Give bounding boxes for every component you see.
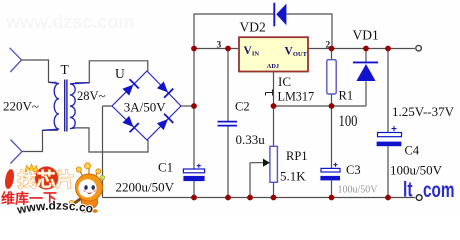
wire secondary bottom to bridge bottom corner — [76, 128, 148, 152]
svg-text:VD1: VD1 — [353, 28, 379, 43]
input terminal arrow bottom — [10, 140, 22, 164]
wire top bus with VD2 gap — [194, 14, 333, 49]
svg-text:1.25V--37V: 1.25V--37V — [392, 104, 455, 119]
node C1 bottom junction — [191, 195, 197, 201]
wire bottom bus — [103, 197, 416, 199]
wire node 2 IC VOUT to output terminal — [308, 48, 415, 50]
svg-text:2200u/50V: 2200u/50V — [116, 180, 175, 195]
RP1 wiper arrowhead — [263, 159, 270, 167]
svg-text:0.33u: 0.33u — [236, 132, 266, 147]
wire node 3 to IC VIN — [194, 48, 239, 50]
node ADJ junction — [271, 103, 277, 109]
node C4 top junction — [385, 46, 391, 52]
wire RP1 wiper — [250, 163, 264, 198]
transformer T primary coil — [43, 82, 60, 130]
svg-text:T: T — [61, 62, 70, 77]
transformer T secondary coil — [70, 83, 89, 129]
wire input top terminal to transformer primary top — [22, 60, 57, 82]
svg-text:www.dzsc.com: www.dzsc.com — [5, 12, 134, 32]
node VD1 top junction — [363, 46, 369, 52]
node C4 bottom junction — [385, 195, 391, 201]
capacitor C1 — [183, 164, 204, 181]
node C2 bottom junction — [225, 195, 231, 201]
svg-text:ADJ: ADJ — [267, 63, 279, 70]
wire C4 branch — [387, 49, 389, 198]
node R1 bottom junction — [329, 103, 335, 109]
svg-text:IC: IC — [278, 74, 291, 89]
svg-text:220V~: 220V~ — [3, 98, 39, 113]
svg-text:VD2: VD2 — [240, 19, 266, 34]
bridge diode top-right — [156, 80, 174, 98]
capacitor C2 — [218, 122, 238, 126]
bridge rectifier U diamond — [112, 71, 181, 140]
svg-text:3: 3 — [217, 41, 222, 51]
svg-text:lt: lt — [403, 178, 413, 201]
bridge diode bottom-left — [121, 115, 139, 133]
node bridge right junction — [191, 103, 197, 109]
bridge diode bottom-right — [156, 113, 174, 131]
output terminal minus — [416, 195, 422, 201]
output terminal plus — [416, 45, 422, 51]
svg-text:C2: C2 — [235, 100, 250, 114]
wire VD1 top — [365, 49, 367, 62]
diode VD2 — [274, 3, 286, 27]
node 3 junction — [191, 46, 197, 52]
svg-text:找芯片: 找芯片 — [18, 168, 75, 191]
svg-text:com: com — [423, 178, 455, 202]
wire bridge left corner stub and vertical to bottom bus — [103, 106, 112, 198]
watermark red smear — [4, 168, 16, 189]
svg-text:28V~: 28V~ — [77, 89, 106, 103]
input terminal arrow top — [10, 48, 22, 72]
wire main vertical x=193.5 top bus to C1 and bottom bus — [193, 14, 195, 198]
svg-text:5.1K: 5.1K — [280, 168, 306, 183]
node C2 top junction — [225, 46, 231, 52]
capacitor C3 — [320, 163, 340, 181]
node C3 bottom junction — [329, 195, 335, 201]
svg-text:C3: C3 — [346, 163, 361, 177]
svg-text:R1: R1 — [339, 89, 354, 103]
watermark crown icon — [25, 164, 38, 172]
wire secondary top to bridge top corner — [75, 61, 148, 83]
svg-text:3A/50V: 3A/50V — [124, 100, 167, 115]
label pointer tick near IC — [266, 90, 273, 96]
resistor R1 — [327, 60, 336, 94]
svg-text:U: U — [115, 66, 125, 81]
watermark red circle badge — [35, 166, 58, 189]
svg-text:C4: C4 — [405, 143, 420, 157]
node RP1 bottom junction — [271, 195, 277, 201]
svg-text:100u/50V: 100u/50V — [338, 185, 379, 196]
node 2 / R1 top junction — [329, 46, 335, 52]
svg-text:LM317: LM317 — [278, 90, 315, 104]
wire bridge right corner stub — [181, 105, 194, 107]
diode VD1 — [353, 62, 378, 81]
IC U1 LM317 body — [239, 37, 308, 71]
svg-text:RP1: RP1 — [286, 149, 308, 163]
wire ADJ pin and ADJ horizontal to VD1 bottom — [274, 72, 367, 107]
watermark mascot — [69, 163, 104, 213]
wire RP1 top and bottom — [273, 106, 275, 198]
wire input bottom terminal to transformer primary bottom — [22, 130, 58, 151]
potentiometer RP1 — [270, 146, 278, 182]
capacitor C4 — [377, 126, 402, 146]
svg-text:100u/50V: 100u/50V — [390, 163, 443, 178]
transformer core — [65, 80, 67, 132]
bridge diode top-left — [121, 79, 139, 97]
wire R1 C3 branch — [331, 49, 333, 198]
wire C2 branch — [227, 49, 229, 198]
node wiper bottom junction — [247, 195, 253, 201]
svg-text:100: 100 — [339, 113, 358, 130]
svg-text:C1: C1 — [158, 160, 173, 175]
